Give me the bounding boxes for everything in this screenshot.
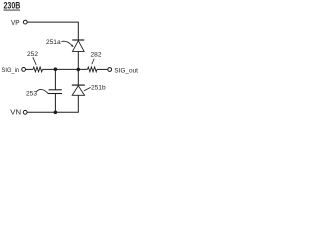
resistor 252: [33, 67, 43, 72]
label 252: [27, 51, 38, 65]
svg-text:SIG_out: SIG_out: [114, 67, 138, 74]
diode 251a: [72, 40, 84, 51]
junction VN rail: [54, 111, 58, 115]
svg-text:VN: VN: [10, 108, 21, 117]
svg-text:251a: 251a: [46, 39, 61, 46]
label 251a: [46, 39, 74, 47]
label 253: [26, 89, 48, 97]
label 282: [91, 52, 102, 65]
svg-text:VP: VP: [11, 18, 20, 27]
resistor 282: [88, 67, 98, 72]
wire junction to capacitor 253: [54, 69, 56, 89]
junction diode branch: [77, 68, 81, 72]
diode 251b: [72, 85, 85, 95]
wire diode 251a to signal line: [77, 51, 79, 69]
label 251b: [84, 85, 106, 92]
wire VP rail to diode 251a: [27, 22, 78, 39]
svg-text:253: 253: [26, 90, 37, 97]
svg-text:282: 282: [91, 52, 102, 59]
terminal VN: [23, 110, 27, 114]
terminal SIG_in: [22, 68, 26, 72]
svg-text:230B: 230B: [4, 1, 21, 11]
figure label 230B: [4, 1, 21, 11]
terminal SIG_out: [108, 68, 112, 72]
junction capacitor branch: [54, 67, 58, 71]
wire junction to diode 251b: [77, 69, 79, 85]
wire resistor 282 to SIG_out: [97, 68, 108, 70]
wire resistor 252 to resistor 282: [43, 68, 88, 70]
capacitor 253: [48, 90, 62, 94]
wire capacitor 253 to VN rail: [54, 94, 56, 113]
svg-text:SIG_in: SIG_in: [2, 67, 20, 74]
terminal VP: [23, 20, 27, 24]
wire SIG_in to resistor 252: [26, 68, 33, 70]
svg-text:251b: 251b: [91, 85, 106, 92]
wire diode 251b to VN rail: [27, 95, 78, 112]
svg-text:252: 252: [27, 51, 38, 58]
